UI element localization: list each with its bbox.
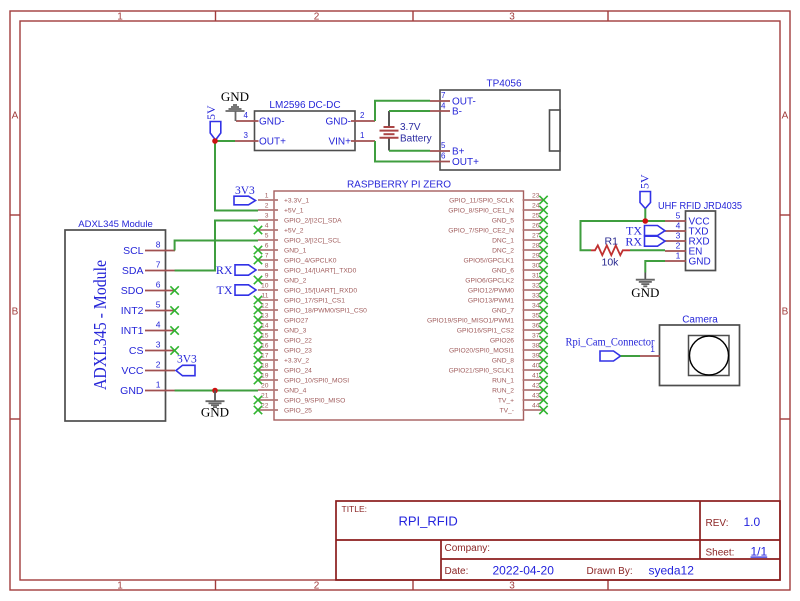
RPi pin 21 GPIO_9/SPI0_MISO [254, 393, 346, 405]
svg-text:2: 2 [360, 111, 365, 120]
svg-text:6: 6 [441, 152, 446, 161]
svg-text:TX: TX [217, 283, 233, 297]
wire 5V junction to LM2596 OUT+ [215, 140, 235, 142]
svg-text:24: 24 [532, 203, 540, 210]
svg-text:VCC: VCC [121, 365, 144, 377]
svg-text:6: 6 [156, 280, 161, 290]
RPi pin 24 GPIO_8/SPI0_CE1_N [448, 203, 547, 215]
svg-text:DNC_1: DNC_1 [492, 238, 514, 245]
RPi pin 19 GPIO_10/SPI0_MOSI [254, 373, 349, 385]
svg-text:2: 2 [156, 360, 161, 370]
svg-text:+3.3V_1: +3.3V_1 [284, 198, 309, 205]
RPi pin 4 +5V_2 [254, 223, 304, 235]
svg-text:RPI_RFID: RPI_RFID [399, 514, 458, 529]
svg-text:A: A [12, 111, 19, 122]
wire net SCL: ADXL SCL to RPi pin 5 [175, 241, 258, 251]
svg-text:1: 1 [117, 12, 123, 23]
svg-text:36: 36 [532, 323, 540, 330]
svg-text:Sheet:: Sheet: [706, 548, 735, 559]
svg-text:GPIO_11/SPI0_SCLK: GPIO_11/SPI0_SCLK [449, 198, 514, 205]
battery BT1 3.7V [380, 111, 432, 151]
svg-text:INT1: INT1 [121, 325, 144, 337]
module U2 TP4056 charger [440, 79, 560, 171]
RPi pin 31 GPIO6/GPCLK2 [465, 273, 547, 285]
UHF RFID pin 3 RXD [665, 231, 710, 248]
RPi pin 27 DNC_1 [492, 233, 548, 245]
net flag RX at RPi pin 8 [216, 263, 256, 277]
svg-text:GPIO21/SPI0_SCLK1: GPIO21/SPI0_SCLK1 [449, 368, 515, 375]
ADXL345 pin 4 INT1 [121, 320, 179, 338]
svg-text:34: 34 [532, 303, 540, 310]
svg-text:GPIO_22: GPIO_22 [284, 338, 312, 345]
svg-text:GPIO_2/[I2C]_SDA: GPIO_2/[I2C]_SDA [284, 218, 342, 225]
svg-text:GPIO_10/SPI0_MOSI: GPIO_10/SPI0_MOSI [284, 378, 349, 385]
ADXL345 pin 2 VCC [121, 360, 175, 378]
svg-text:LM2596 DC-DC: LM2596 DC-DC [269, 100, 340, 111]
wire battery - to TP4056 B+ [389, 150, 430, 152]
svg-text:4: 4 [441, 102, 446, 111]
svg-text:OUT+: OUT+ [452, 157, 479, 168]
module U4 ADXL345 accelerometer [65, 219, 166, 421]
svg-text:3V3: 3V3 [235, 185, 255, 197]
RPi pin 34 GND_7 [492, 303, 548, 315]
net flag TX at UHF TXD [626, 224, 665, 238]
svg-text:GND: GND [689, 257, 711, 268]
svg-text:1: 1 [360, 131, 365, 140]
wire R1 to UHF EN pin [630, 249, 665, 251]
ADXL345 pin 3 CS [129, 340, 179, 358]
svg-text:B+: B+ [452, 147, 465, 158]
svg-text:+3.3V_2: +3.3V_2 [284, 358, 309, 365]
wire net SDA: ADXL SDA to RPi pin 3 [175, 221, 258, 271]
svg-text:2: 2 [676, 241, 681, 251]
svg-text:GPIO_15/[UART]_RXD0: GPIO_15/[UART]_RXD0 [284, 288, 357, 295]
RPi pin 41 RUN_1 [492, 373, 548, 385]
svg-text:3: 3 [509, 581, 515, 592]
svg-text:4: 4 [676, 221, 681, 231]
svg-text:38: 38 [532, 343, 540, 350]
svg-text:GPIO13/PWM1: GPIO13/PWM1 [468, 298, 514, 305]
junction node UHF VCC [643, 218, 649, 224]
svg-text:27: 27 [532, 233, 540, 240]
svg-text:Company:: Company: [445, 543, 491, 554]
svg-text:29: 29 [532, 253, 540, 260]
svg-text:4: 4 [244, 111, 249, 120]
RPi pin 33 GPIO13/PWM1 [468, 293, 548, 305]
svg-text:Battery: Battery [400, 134, 432, 145]
junction node 5V rail [212, 138, 218, 144]
svg-text:26: 26 [532, 223, 540, 230]
RPi pin 43 TV_+ [498, 393, 548, 405]
svg-text:GND_7: GND_7 [492, 308, 515, 315]
TP4056 pin 7 OUT- [430, 91, 476, 108]
svg-text:41: 41 [532, 373, 540, 380]
svg-text:GPIO_14/[UART]_TXD0: GPIO_14/[UART]_TXD0 [284, 268, 357, 275]
RPi pin 10 GPIO_15/[UART]_RXD0 [258, 283, 357, 295]
svg-text:32: 32 [532, 283, 540, 290]
RPi pin 23 GPIO_11/SPI0_SCLK [449, 193, 548, 205]
svg-text:1.0: 1.0 [744, 515, 761, 529]
svg-text:SCL: SCL [123, 245, 144, 257]
svg-text:7: 7 [441, 91, 446, 100]
svg-text:DNC_2: DNC_2 [492, 248, 514, 255]
wire 5V flag to VCC junction [644, 209, 646, 222]
wire camera flag to camera pin 1 [621, 355, 641, 357]
svg-text:5V: 5V [638, 174, 652, 189]
svg-text:GPIO26: GPIO26 [490, 338, 514, 345]
svg-text:2022-04-20: 2022-04-20 [493, 564, 555, 578]
svg-text:31: 31 [532, 273, 540, 280]
svg-text:GPIO12/PWM0: GPIO12/PWM0 [468, 288, 514, 295]
LM2596 pin 2 GND- [325, 111, 375, 128]
svg-text:GPIO6/GPCLK2: GPIO6/GPCLK2 [465, 278, 514, 285]
title block labels [342, 504, 735, 577]
ADXL345 pin 5 INT2 [121, 300, 179, 318]
svg-text:R1: R1 [605, 236, 619, 248]
svg-text:GPIO19/SPI0_MISO1/PWM1: GPIO19/SPI0_MISO1/PWM1 [427, 318, 514, 325]
svg-text:1: 1 [265, 193, 269, 200]
svg-text:GND_1: GND_1 [284, 248, 307, 255]
svg-text:2: 2 [314, 12, 320, 23]
UHF RFID pin 5 VCC [665, 211, 710, 228]
RPi pin 40 GPIO21/SPI0_SCLK1 [449, 363, 548, 375]
svg-text:3: 3 [676, 231, 681, 241]
wire battery + to TP4056 B- [389, 110, 430, 112]
svg-text:GND: GND [631, 285, 659, 300]
LM2596 pin 3 OUT+ [235, 131, 286, 148]
svg-text:39: 39 [532, 353, 540, 360]
svg-text:5: 5 [441, 141, 446, 150]
wire VCC junction to UHF VCC pin [645, 220, 665, 222]
svg-text:GND-: GND- [259, 117, 285, 128]
svg-text:9: 9 [265, 273, 269, 280]
svg-text:A: A [782, 111, 789, 122]
RPi pin 44 TV_- [500, 403, 548, 415]
svg-text:UHF RFID JRD4035: UHF RFID JRD4035 [658, 201, 742, 212]
svg-text:1: 1 [117, 581, 123, 592]
svg-text:3: 3 [509, 12, 515, 23]
svg-text:8: 8 [265, 263, 269, 270]
svg-text:3: 3 [265, 213, 269, 220]
RPi pin 42 RUN_2 [492, 383, 548, 395]
power flag 3V3 at RPi pin 1 [234, 185, 256, 205]
svg-text:GPIO16/SPI1_CS2: GPIO16/SPI1_CS2 [457, 328, 515, 335]
svg-text:11: 11 [262, 293, 269, 300]
wire 5V rail down to RPi pin 2 [215, 141, 258, 211]
svg-text:30: 30 [532, 263, 540, 270]
RPi pin 7 GPIO_4/GPCLK0 [254, 253, 337, 265]
module U5 UHF RFID JRD4035 [658, 201, 742, 271]
svg-text:GND_6: GND_6 [492, 268, 515, 275]
RPi pin 5 GPIO_3/[I2C]_SCL [258, 233, 341, 245]
RPi pin 6 GND_1 [254, 243, 307, 255]
RPi pin 16 GPIO_23 [254, 343, 312, 355]
Camera pin 1 [640, 344, 660, 356]
svg-text:7: 7 [265, 253, 269, 260]
svg-text:RUN_2: RUN_2 [492, 388, 514, 395]
RPi pin 25 GND_5 [492, 213, 548, 225]
svg-text:RX: RX [216, 263, 233, 277]
RPi pin 8 GPIO_14/[UART]_TXD0 [258, 263, 357, 275]
svg-text:GND_8: GND_8 [492, 358, 515, 365]
svg-text:CS: CS [129, 345, 144, 357]
svg-text:SDO: SDO [121, 285, 144, 297]
svg-text:Camera: Camera [682, 315, 718, 326]
RPi pin 29 GPIO5//GPCLK1 [463, 253, 547, 265]
svg-text:Rpi_Cam_Connector: Rpi_Cam_Connector [566, 337, 655, 349]
net flag RX at UHF RXD [625, 234, 665, 248]
RPi pin 30 GND_6 [492, 263, 548, 275]
svg-text:5: 5 [676, 211, 681, 221]
svg-text:GND_3: GND_3 [284, 328, 307, 335]
svg-text:28: 28 [532, 243, 540, 250]
power flag 5V (left) [204, 105, 221, 140]
svg-text:GPIO_7/SPI0_CE2_N: GPIO_7/SPI0_CE2_N [448, 228, 514, 235]
RPi pin 13 GPIO27 [254, 313, 309, 325]
ADXL345 pin 1 GND [120, 380, 175, 398]
svg-text:33: 33 [532, 293, 540, 300]
svg-text:5: 5 [265, 233, 269, 240]
svg-text:GND_5: GND_5 [492, 218, 515, 225]
svg-text:3: 3 [244, 131, 249, 140]
wire LM2596 GND- to TP4056 OUT- [375, 101, 430, 121]
power flag 3V3 at ADXL VCC [176, 354, 197, 376]
svg-text:Drawn By:: Drawn By: [587, 566, 633, 577]
svg-text:4: 4 [265, 223, 269, 230]
svg-text:4: 4 [156, 320, 161, 330]
svg-text:TV_+: TV_+ [498, 398, 514, 405]
RPi pin 32 GPIO12/PWM0 [468, 283, 548, 295]
RPi pin 39 GND_8 [492, 353, 548, 365]
svg-text:ADXL345 - Module: ADXL345 - Module [90, 260, 110, 390]
svg-text:+5V_1: +5V_1 [284, 208, 304, 215]
RPi pin 22 GPIO_25 [254, 403, 312, 415]
ground symbol GND (top, above LM2596 pin 4) [221, 89, 249, 121]
svg-text:GPIO_25: GPIO_25 [284, 408, 312, 415]
svg-text:TITLE:: TITLE: [342, 504, 368, 514]
svg-text:8: 8 [156, 240, 161, 250]
RPi pin 38 GPIO20/SPI0_MOSI1 [449, 343, 548, 355]
svg-text:GPIO_9/SPI0_MISO: GPIO_9/SPI0_MISO [284, 398, 345, 405]
svg-text:GPIO_18/PWM0/SPI1_CS0: GPIO_18/PWM0/SPI1_CS0 [284, 308, 367, 315]
svg-text:GPIO_17/SPI1_CS1: GPIO_17/SPI1_CS1 [284, 298, 345, 305]
RPi pin 28 DNC_2 [492, 243, 548, 255]
ADXL345 pin 8 SCL [123, 240, 175, 258]
svg-text:2: 2 [265, 203, 269, 210]
svg-text:7: 7 [156, 260, 161, 270]
svg-text:43: 43 [532, 393, 540, 400]
svg-text:ADXL345 Module: ADXL345 Module [78, 219, 152, 230]
svg-text:25: 25 [532, 213, 540, 220]
svg-text:2: 2 [314, 581, 320, 592]
svg-text:syeda12: syeda12 [649, 564, 695, 578]
UHF RFID pin 1 GND [665, 251, 711, 268]
module U1 LM2596 DC-DC [255, 100, 356, 151]
svg-text:1/1: 1/1 [751, 545, 768, 559]
RPi pin 26 GPIO_7/SPI0_CE2_N [448, 223, 547, 235]
UHF RFID pin 2 EN [665, 241, 702, 258]
svg-text:+5V_2: +5V_2 [284, 228, 304, 235]
svg-text:44: 44 [532, 403, 540, 410]
svg-text:GND: GND [120, 385, 144, 397]
svg-text:23: 23 [532, 193, 540, 200]
ground symbol GND (below ADXL GND wire) [201, 391, 229, 420]
title block values [399, 514, 768, 578]
svg-text:GPIO_23: GPIO_23 [284, 348, 312, 355]
RPi pin 36 GPIO16/SPI1_CS2 [457, 323, 548, 335]
RPi pin 11 GPIO_17/SPI1_CS1 [254, 293, 345, 305]
svg-text:GND: GND [221, 89, 249, 104]
TP4056 pin 6 OUT+ [430, 152, 479, 169]
svg-text:Date:: Date: [445, 566, 469, 577]
svg-text:B-: B- [452, 107, 462, 118]
RPi pin 37 GPIO26 [490, 333, 548, 345]
svg-text:20: 20 [261, 383, 269, 390]
svg-text:10: 10 [261, 283, 269, 290]
svg-text:RUN_1: RUN_1 [492, 378, 514, 385]
svg-text:3V3: 3V3 [177, 354, 197, 366]
resistor R1 10k [591, 236, 630, 269]
svg-text:5V: 5V [204, 105, 218, 120]
svg-text:VIN+: VIN+ [328, 137, 351, 148]
svg-text:TV_-: TV_- [500, 408, 515, 415]
wire VCC junction to R1 [581, 221, 646, 250]
wire UHF GND pin to ground [645, 261, 665, 273]
wire net GND: ADXL GND to RPi pin 20 [175, 390, 258, 392]
RPi pin 9 GND_2 [254, 273, 307, 285]
svg-text:GPIO_8/SPI0_CE1_N: GPIO_8/SPI0_CE1_N [448, 208, 514, 215]
net flag TX at RPi pin 10 [217, 283, 257, 297]
power flag 5V at UHF RFID [638, 174, 652, 209]
svg-text:GND-: GND- [325, 117, 351, 128]
svg-text:RX: RX [625, 234, 642, 248]
RPi pin 20 GND_4 [258, 383, 307, 395]
svg-text:RASPBERRY PI ZERO: RASPBERRY PI ZERO [347, 180, 451, 191]
svg-text:3.7V: 3.7V [400, 122, 421, 133]
RPi pin 2 +5V_1 [258, 203, 304, 215]
ADXL345 pin 7 SDA [122, 260, 175, 278]
RPi pin 15 GPIO_22 [254, 333, 312, 345]
title block [336, 501, 780, 580]
TP4056 pin 5 B+ [430, 141, 465, 158]
TP4056 pin 4 B- [430, 102, 462, 118]
svg-text:B: B [782, 307, 789, 318]
svg-text:1: 1 [156, 380, 161, 390]
ground symbol GND (below UHF RFID) [631, 273, 659, 301]
svg-text:40: 40 [532, 363, 540, 370]
LM2596 pin 1 VIN+ [328, 131, 375, 148]
wire LM2596 VIN+ to TP4056 OUT+ [375, 141, 430, 162]
svg-text:1: 1 [676, 251, 681, 261]
svg-text:42: 42 [532, 383, 540, 390]
RPi pin 12 GPIO_18/PWM0/SPI1_CS0 [254, 303, 367, 315]
svg-text:GND_2: GND_2 [284, 278, 307, 285]
svg-text:37: 37 [532, 333, 540, 340]
svg-text:OUT+: OUT+ [259, 137, 286, 148]
svg-text:GPIO_3/[I2C]_SCL: GPIO_3/[I2C]_SCL [284, 238, 341, 245]
junction node GND rail [212, 388, 218, 394]
svg-text:3: 3 [156, 340, 161, 350]
ADXL345 pin 6 SDO [121, 280, 179, 298]
RPi pin 18 GPIO_24 [254, 363, 312, 375]
RPi pin 14 GND_3 [254, 323, 307, 335]
svg-text:SDA: SDA [122, 265, 144, 277]
svg-text:35: 35 [532, 313, 540, 320]
module U3 RASPBERRY PI ZERO [274, 180, 524, 421]
RPi pin 3 GPIO_2/[I2C]_SDA [258, 213, 342, 225]
RPi pin 35 GPIO19/SPI0_MISO1/PWM1 [427, 313, 548, 325]
svg-text:GPIO5//GPCLK1: GPIO5//GPCLK1 [463, 258, 514, 265]
svg-text:GPIO20/SPI0_MOSI1: GPIO20/SPI0_MOSI1 [449, 348, 514, 355]
svg-text:6: 6 [265, 243, 269, 250]
net flag Rpi_Cam_Connector [566, 337, 655, 362]
svg-text:GPIO_24: GPIO_24 [284, 368, 312, 375]
module U6 Camera [660, 315, 740, 386]
svg-text:GPIO_4/GPCLK0: GPIO_4/GPCLK0 [284, 258, 337, 265]
svg-text:TP4056: TP4056 [486, 79, 521, 90]
svg-text:GND: GND [201, 405, 229, 420]
LM2596 pin 4 GND- [236, 111, 285, 128]
svg-text:5: 5 [156, 300, 161, 310]
svg-text:INT2: INT2 [121, 305, 144, 317]
svg-text:B: B [12, 307, 19, 318]
svg-text:REV:: REV: [706, 518, 729, 529]
RPi pin 1 +3.3V_1 [258, 193, 309, 205]
RPi pin 17 +3.3V_2 [254, 353, 310, 365]
svg-text:GND_4: GND_4 [284, 388, 307, 395]
svg-text:10k: 10k [602, 257, 620, 269]
svg-text:GPIO27: GPIO27 [284, 318, 308, 325]
UHF RFID pin 4 TXD [665, 221, 709, 238]
